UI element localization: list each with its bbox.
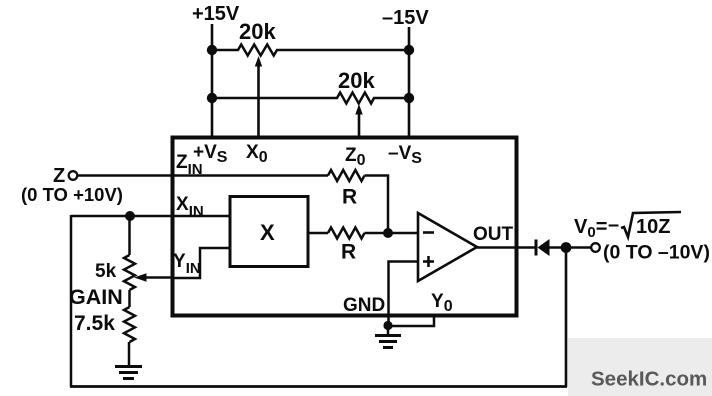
svg-text:+15V: +15V [192, 3, 240, 25]
terminal VO output [591, 243, 600, 252]
wire output right vertical [565, 247, 568, 387]
svg-text:SeekIC.com: SeekIC.com [591, 368, 707, 391]
potentiometer 20k (X0 trim) [212, 19, 409, 137]
wire feedback left vertical [70, 215, 73, 387]
svg-text:20k: 20k [338, 68, 375, 93]
resistor R2 [328, 228, 365, 264]
svg-text:7.5k: 7.5k [74, 312, 115, 335]
wire Z input to resistor R1 [78, 174, 329, 177]
wire feedback bottom [70, 385, 567, 388]
potentiometer 5k GAIN [69, 255, 172, 309]
wire op-amp plus to GND pin [389, 262, 419, 326]
wire diode to output terminal [549, 246, 591, 249]
junction dot (GND) [383, 321, 392, 330]
wire Y0 to ground [390, 316, 434, 326]
svg-text:(0 TO –10V): (0 TO –10V) [603, 242, 710, 264]
svg-text:OUT: OUT [473, 224, 514, 245]
resistor 7.5k [74, 307, 135, 342]
svg-text:10Z: 10Z [636, 216, 670, 238]
op-amp U2 [418, 213, 477, 281]
junction dot [404, 93, 414, 103]
ground (GND pin) [375, 325, 401, 348]
svg-text:(0 TO +10V): (0 TO +10V) [21, 184, 123, 205]
diode D1 [536, 239, 550, 256]
svg-text:R: R [341, 241, 356, 264]
wire R1 to summing node [365, 176, 389, 234]
label V0 = -sqrt(10Z) [574, 212, 681, 241]
wire -15V vertical [408, 27, 411, 137]
junction dot [404, 45, 414, 55]
svg-text:20k: 20k [239, 19, 276, 44]
potentiometer 20k (Z0 trim) [212, 68, 409, 137]
multiplier IC U1 body [173, 138, 517, 316]
junction dot [207, 45, 217, 55]
wire 7.5k to ground [128, 342, 131, 366]
wire XIN feedback [71, 215, 230, 218]
SeekIC.com watermark [568, 338, 712, 396]
svg-text:GAIN: GAIN [69, 285, 123, 309]
wire YIN routing [172, 248, 230, 278]
junction dot (gain divider tap) [125, 211, 135, 221]
ground (gain divider) [115, 367, 142, 379]
wire op-amp output [477, 246, 535, 249]
junction dot [207, 93, 217, 103]
wire 5k to 7.5k [128, 290, 131, 307]
junction dot (output) [561, 242, 572, 253]
svg-text:5k: 5k [95, 261, 117, 282]
resistor R1 [328, 170, 365, 209]
svg-text:GND: GND [343, 295, 385, 316]
wire +15V vertical [211, 24, 214, 137]
wire X output [308, 232, 328, 235]
wire R2 to op-amp [365, 232, 419, 235]
svg-text:–: – [608, 214, 619, 236]
svg-text:–15V: –15V [382, 7, 429, 29]
svg-text:X: X [260, 220, 275, 245]
junction dot (summing node) [383, 228, 393, 238]
wire 5k top [128, 216, 131, 255]
multiplier cell X [230, 197, 308, 267]
svg-text:R: R [342, 186, 357, 209]
